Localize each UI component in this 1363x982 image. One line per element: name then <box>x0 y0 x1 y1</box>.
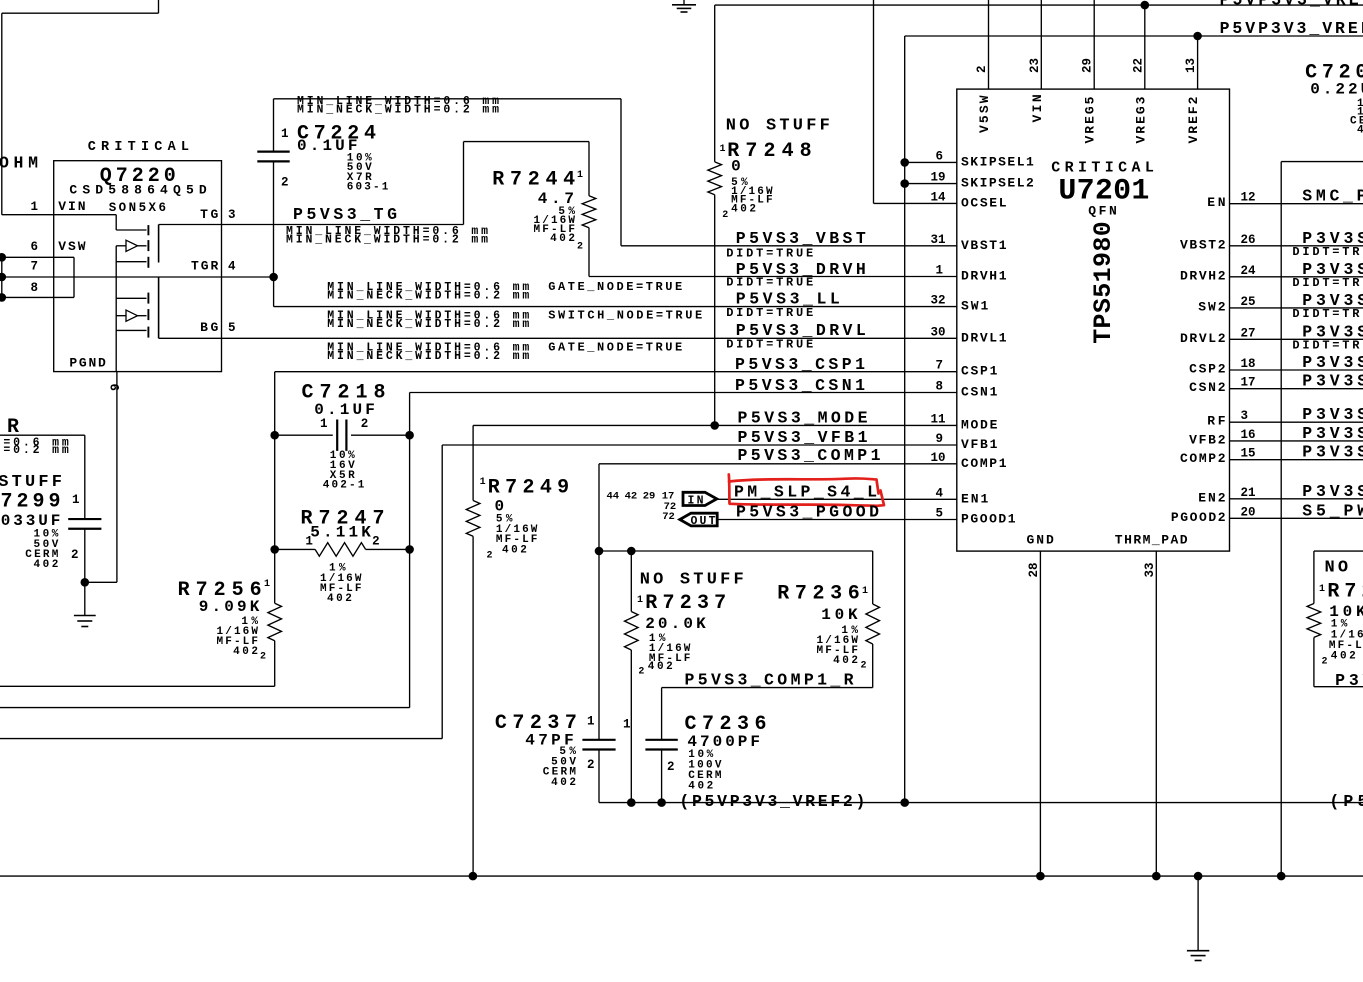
wire net P5VS3_PGOOD <box>717 519 957 521</box>
svg-text:GND: GND <box>1027 533 1054 548</box>
wire TGR net <box>2 276 274 278</box>
svg-text:2: 2 <box>71 548 79 562</box>
svg-text:EN1: EN1 <box>961 491 988 506</box>
svg-text:VIN: VIN <box>58 199 85 214</box>
node COMP1 C7237 <box>595 547 604 556</box>
node VSW 6 <box>0 253 6 262</box>
svg-text:VSW: VSW <box>58 239 85 254</box>
node C7236 VREF2 <box>657 798 666 807</box>
svg-text:DIDT=TRUE: DIDT=TRUE <box>726 338 813 352</box>
wire net P5VP3V3_VREF2 rail <box>905 35 1363 37</box>
node VREG3 pin22 <box>1141 1 1150 10</box>
wire TG net <box>159 224 464 226</box>
svg-text:DIDT=TRUE: DIDT=TRUE <box>1292 245 1363 259</box>
svg-text:402: 402 <box>688 781 713 793</box>
svg-text:NO STUFF: NO STUFF <box>1325 559 1363 578</box>
wire VIN pin1 <box>2 214 116 216</box>
svg-text:16: 16 <box>1241 428 1256 442</box>
svg-text:2: 2 <box>587 758 595 772</box>
svg-text:COMP1: COMP1 <box>961 456 1007 471</box>
capacitor C7236 <box>661 688 663 740</box>
wire Q7220 left rail / PGND <box>115 246 117 372</box>
svg-text:VREF2: VREF2 <box>1186 96 1201 143</box>
svg-text:1: 1 <box>305 535 313 549</box>
svg-text:DRVL2: DRVL2 <box>1180 331 1226 346</box>
svg-text:1: 1 <box>30 200 38 214</box>
svg-text:P5VP3V3_VREF: P5VP3V3_VREF <box>1220 19 1363 38</box>
svg-text:VREG3: VREG3 <box>1133 96 1148 143</box>
svg-text:DIDT=TRUE: DIDT=TRUE <box>1292 276 1363 290</box>
pin 23 VIN <box>1040 0 1042 89</box>
svg-text:8: 8 <box>935 380 943 394</box>
svg-text:4: 4 <box>935 486 943 500</box>
node VREF2 rail bottom <box>900 798 909 807</box>
svg-text:MIN_NECK_WIDTH=0.2 mm: MIN_NECK_WIDTH=0.2 mm <box>297 104 499 117</box>
svg-text:10K: 10K <box>821 606 858 624</box>
svg-text:28: 28 <box>1027 562 1041 577</box>
wire net P5VS3_CSP1 <box>275 371 957 373</box>
svg-text:MIN_NECK_WIDTH=0.2 mm: MIN_NECK_WIDTH=0.2 mm <box>286 234 488 247</box>
pin 33 THRM_PAD <box>1155 551 1157 876</box>
svg-text:P5VS3_COMP1: P5VS3_COMP1 <box>738 446 881 465</box>
svg-text:MODE: MODE <box>961 417 998 432</box>
transistor Q7220 top FET <box>115 215 117 230</box>
node CSN1 R7247 <box>405 545 414 554</box>
svg-text:402: 402 <box>327 593 352 605</box>
annotation red box <box>729 475 884 506</box>
svg-text:0.22UF: 0.22UF <box>1310 81 1363 99</box>
svg-text:12: 12 <box>1241 191 1256 205</box>
svg-text:22: 22 <box>1131 58 1145 73</box>
svg-text:3: 3 <box>1241 409 1249 423</box>
svg-text:1: 1 <box>637 595 643 606</box>
node right border bus <box>1277 872 1286 881</box>
svg-text:2: 2 <box>260 652 266 663</box>
wire VSW bus <box>1 256 3 299</box>
wire net P5VS3_DRVH <box>589 276 957 278</box>
resistor R7249 <box>472 425 474 500</box>
transistor Q7220 bottom FET <box>116 297 146 299</box>
svg-text:SKIPSEL1: SKIPSEL1 <box>961 154 1034 169</box>
capacitor C7237 <box>598 551 600 739</box>
svg-text:42: 42 <box>625 490 638 502</box>
wire SKIPSEL1 <box>905 161 957 163</box>
svg-text:VFB1: VFB1 <box>961 437 998 452</box>
svg-text:7: 7 <box>30 260 38 274</box>
svg-text:SKIPSEL2: SKIPSEL2 <box>961 176 1034 191</box>
svg-text:0: 0 <box>731 157 741 175</box>
node C7237 VREF2 <box>627 798 636 807</box>
svg-text:1: 1 <box>320 417 328 431</box>
svg-text:CSN1: CSN1 <box>961 385 998 400</box>
svg-text:21: 21 <box>1241 486 1256 500</box>
svg-text:2: 2 <box>361 417 369 431</box>
svg-text:2: 2 <box>372 535 380 549</box>
wire C7299 top <box>0 434 85 436</box>
svg-text:SW2: SW2 <box>1198 299 1225 314</box>
svg-text:4: 4 <box>228 260 236 274</box>
svg-text:25: 25 <box>1241 295 1256 309</box>
ground <box>683 0 685 5</box>
svg-text:14: 14 <box>930 190 946 204</box>
wire net P5VS3_CSN1 <box>410 392 957 394</box>
svg-text:0.033UF: 0.033UF <box>0 512 60 530</box>
svg-text:P5VP3V3_VRE: P5VP3V3_VRE <box>1220 0 1359 10</box>
node SKIPSEL1 <box>900 158 909 167</box>
svg-text:402: 402 <box>551 777 576 789</box>
wire net P5VS3_VFB1 <box>442 444 957 446</box>
wire top rail net P5V3V3_VREG3 <box>715 4 1363 6</box>
svg-text:DIDT=TRUE: DIDT=TRUE <box>726 276 813 290</box>
svg-text:402: 402 <box>34 559 59 571</box>
pin 22 VREG3 <box>1144 5 1146 89</box>
svg-text:0: 0 <box>495 497 505 515</box>
svg-text:18: 18 <box>1241 357 1256 371</box>
svg-text:1: 1 <box>480 477 486 488</box>
svg-text:402: 402 <box>731 204 756 216</box>
svg-text:2: 2 <box>975 65 989 73</box>
ground bottom <box>1197 876 1199 951</box>
svg-text:7: 7 <box>935 359 943 373</box>
wire net P5VS3_COMP1 <box>599 463 957 465</box>
svg-text:402: 402 <box>550 233 575 245</box>
svg-text:QFN: QFN <box>1088 204 1117 219</box>
node CSP1 R7247 <box>270 545 279 554</box>
svg-text:1: 1 <box>281 127 289 141</box>
svg-text:DRVL1: DRVL1 <box>961 330 1007 345</box>
capacitor C7224 <box>273 99 275 152</box>
svg-text:1: 1 <box>720 144 726 155</box>
svg-text:COMP2: COMP2 <box>1180 451 1226 466</box>
svg-text:1: 1 <box>264 579 270 590</box>
svg-text:29: 29 <box>1081 58 1095 73</box>
svg-text:402: 402 <box>648 661 673 673</box>
svg-text:5.11K: 5.11K <box>310 523 371 541</box>
svg-text:26: 26 <box>1241 233 1256 247</box>
node GND pin bus <box>1036 872 1045 881</box>
node VSW 7 <box>0 273 6 282</box>
svg-text:1: 1 <box>862 586 868 597</box>
wire net P5VS3_DRVL <box>159 337 957 339</box>
svg-text:DIDT=TRUE: DIDT=TRUE <box>726 247 813 261</box>
svg-text:10: 10 <box>930 451 945 465</box>
node SKIPSEL2 <box>900 179 909 188</box>
port OUT <box>680 513 717 526</box>
svg-text:402: 402 <box>833 655 858 667</box>
svg-text:PM_SLP_S4_L: PM_SLP_S4_L <box>734 483 877 502</box>
svg-text:30: 30 <box>930 325 945 339</box>
svg-text:3: 3 <box>228 208 236 222</box>
svg-text:15: 15 <box>1241 447 1256 461</box>
svg-text:MIN_NECK_WIDTH=0.2 mm: MIN_NECK_WIDTH=0.2 mm <box>327 318 529 331</box>
svg-text:1: 1 <box>577 170 583 181</box>
svg-text:TPS51980: TPS51980 <box>1089 221 1118 344</box>
svg-text:9: 9 <box>935 432 943 446</box>
svg-text:1: 1 <box>1319 584 1325 595</box>
svg-text:CSP1: CSP1 <box>961 364 998 379</box>
wire top-left corner <box>158 0 160 13</box>
pin 13 VREF2 <box>1197 36 1199 89</box>
svg-text:402-1: 402-1 <box>323 480 365 492</box>
resistor R7247 <box>275 548 315 550</box>
port IN <box>683 492 717 505</box>
svg-text:23: 23 <box>1028 58 1042 73</box>
svg-text:33: 33 <box>1143 562 1157 577</box>
node CSP1 C7218 <box>270 431 279 440</box>
svg-text:DIDT=TRUE: DIDT=TRUE <box>1292 307 1363 321</box>
svg-text:DIDT=TRUE: DIDT=TRUE <box>1292 339 1363 353</box>
svg-text:(P5V: (P5V <box>1329 792 1363 811</box>
svg-text:OHM: OHM <box>0 154 38 173</box>
svg-text:13: 13 <box>1184 58 1198 73</box>
svg-text:6: 6 <box>935 149 943 163</box>
svg-text:2: 2 <box>638 667 644 678</box>
svg-text:VREG5: VREG5 <box>1083 96 1098 143</box>
svg-text:1: 1 <box>72 493 80 507</box>
transistor Q7220 body <box>54 161 222 372</box>
svg-text:31: 31 <box>930 233 945 247</box>
wire net P5VS3_COMP1_R <box>662 687 873 689</box>
node VSW 8 <box>0 293 6 302</box>
wire net PM_SLP_S4_L <box>717 498 957 500</box>
pin 2 V5SW <box>988 0 990 89</box>
svg-text:OUT: OUT <box>691 515 716 528</box>
svg-text:CSD58864Q5D: CSD58864Q5D <box>69 182 206 197</box>
svg-text:2: 2 <box>861 661 867 672</box>
svg-text:2: 2 <box>722 210 728 221</box>
node TGR junction <box>269 273 278 282</box>
svg-text:SW1: SW1 <box>961 299 988 314</box>
wire COMP1 branch <box>599 550 873 552</box>
pin 29 VREG5 <box>1093 0 1095 89</box>
svg-text:8: 8 <box>30 281 38 295</box>
node R7249 bus <box>469 872 478 881</box>
svg-text:11: 11 <box>930 412 945 426</box>
svg-text:402: 402 <box>1357 124 1363 136</box>
wire C7224 to VBST <box>274 98 622 100</box>
svg-text:2: 2 <box>1322 657 1328 668</box>
wire net P5VS3_VBST <box>621 245 957 247</box>
wire PGND to ground <box>85 581 117 583</box>
svg-text:19: 19 <box>930 171 945 185</box>
node MODE R7248 <box>710 421 719 430</box>
svg-text:PGND: PGND <box>69 355 106 370</box>
svg-text:1: 1 <box>587 714 595 728</box>
svg-text:2: 2 <box>577 241 583 252</box>
svg-text:9.09K: 9.09K <box>199 598 260 616</box>
pin 28 GND <box>1039 551 1041 876</box>
svg-text:5: 5 <box>935 507 943 521</box>
svg-text:EN2: EN2 <box>1198 490 1225 505</box>
resistor R7251 box <box>1314 550 1363 552</box>
svg-text:402: 402 <box>502 544 527 556</box>
wire SKIPSEL2 <box>905 183 957 185</box>
svg-text:MIN_NECK_WIDTH=0.2 mm: MIN_NECK_WIDTH=0.2 mm <box>327 350 529 363</box>
svg-text:VBST2: VBST2 <box>1180 237 1226 252</box>
svg-text:DRVH2: DRVH2 <box>1180 268 1226 283</box>
svg-text:VIN: VIN <box>1030 94 1045 122</box>
svg-text:27: 27 <box>1241 326 1256 340</box>
svg-text:20: 20 <box>1241 505 1256 519</box>
svg-text:(P5VP3V3_VREF2): (P5VP3V3_VREF2) <box>679 792 865 811</box>
wire net P5VS3_MODE <box>473 424 957 426</box>
svg-text:603-1: 603-1 <box>347 182 389 194</box>
wire net P5VS3_LL <box>273 277 275 307</box>
svg-text:2: 2 <box>667 760 675 774</box>
svg-text:402: 402 <box>233 646 258 658</box>
svg-text:1: 1 <box>935 264 943 278</box>
svg-text:24: 24 <box>1241 264 1257 278</box>
svg-text:MIN_NECK_WIDTH=0.2 mm: MIN_NECK_WIDTH=0.2 mm <box>327 290 529 303</box>
wire OCSEL rail <box>873 0 875 203</box>
svg-text:2: 2 <box>281 175 289 189</box>
resistor R7256 <box>268 603 282 641</box>
node ground bus <box>1194 872 1203 881</box>
op-amp U7201 body <box>957 89 1230 551</box>
resistor R7236 <box>872 551 874 604</box>
ground C7299 <box>84 582 86 615</box>
node COMP1 R7237 <box>627 547 636 556</box>
svg-text:P5VS3_PGOOD: P5VS3_PGOOD <box>736 503 879 522</box>
svg-text:OCSEL: OCSEL <box>961 195 1007 210</box>
svg-text:2: 2 <box>487 551 493 562</box>
node C7299 PGND <box>81 578 90 587</box>
capacitor C7218 <box>275 434 333 436</box>
resistor R7237 <box>630 551 632 612</box>
svg-text:44: 44 <box>607 490 620 502</box>
wire right region border <box>1281 161 1363 163</box>
capacitor C7299 <box>68 518 101 520</box>
svg-text:V5SW: V5SW <box>977 95 992 133</box>
svg-text:THRM_PAD: THRM_PAD <box>1115 533 1188 548</box>
svg-text:CSP2: CSP2 <box>1189 362 1226 377</box>
svg-text:DIDT=TRUE: DIDT=TRUE <box>726 306 813 320</box>
svg-text:9: 9 <box>109 383 123 391</box>
svg-text:DRVH1: DRVH1 <box>961 269 1007 284</box>
svg-text:VBST1: VBST1 <box>961 238 1007 253</box>
node CSN1 C7218 <box>405 431 414 440</box>
svg-text:17: 17 <box>1241 376 1256 390</box>
svg-text:CSN2: CSN2 <box>1189 380 1226 395</box>
node THRM bus <box>1152 872 1161 881</box>
wire ground bus <box>0 875 1363 877</box>
svg-text:VFB2: VFB2 <box>1189 432 1226 447</box>
svg-text:402: 402 <box>1331 650 1356 662</box>
svg-text:32: 32 <box>930 294 945 308</box>
resistor R7244 <box>463 142 465 225</box>
svg-text:29: 29 <box>643 490 656 502</box>
svg-text:1: 1 <box>623 717 631 731</box>
node VREF2 pin13 <box>1193 32 1202 41</box>
svg-text:20.0K: 20.0K <box>645 615 706 633</box>
wire net P5VP3V3_VREF2 bottom <box>599 802 1363 804</box>
svg-text:72: 72 <box>662 511 675 523</box>
svg-text:TGR: TGR <box>191 259 218 274</box>
svg-text:5: 5 <box>228 321 236 335</box>
resistor R7248 <box>714 5 716 162</box>
svg-text:6: 6 <box>30 240 38 254</box>
